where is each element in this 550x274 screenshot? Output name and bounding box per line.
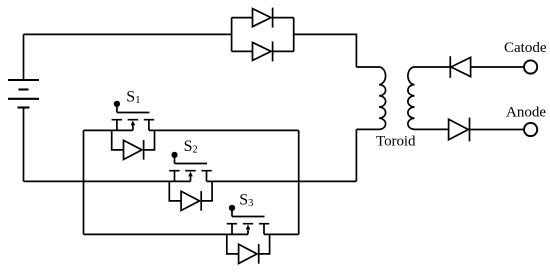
diode D2 (lower of parallel pair): [253, 42, 272, 60]
switch S2 source stem: [174, 171, 176, 182]
switch S2 diode triangle: [181, 191, 199, 210]
wire secondary bottom lead: [415, 128, 449, 130]
switch S1 drain stem: [148, 120, 150, 131]
diode D4 (points right): [449, 119, 469, 139]
terminal circle cathode: [524, 60, 537, 73]
switch S1 antiparallel diode loop wire: [112, 130, 155, 150]
switch S2 gate dot: [172, 153, 177, 158]
switch S2 diode cathode bar: [200, 191, 202, 211]
switch S1 source stem: [116, 120, 118, 131]
svg-text:S3: S3: [239, 192, 253, 210]
diode D3 cathode bar: [449, 56, 451, 78]
wire bottom-branch anode side: [232, 50, 253, 52]
switch S3 gate dot: [230, 206, 235, 211]
wire box left edge: [83, 130, 85, 234]
wire from diode pair to transformer: [294, 34, 357, 67]
wire secondary top lead: [415, 66, 451, 68]
switch S1 gate dot: [115, 102, 120, 107]
wire bottom-branch cathode side: [273, 50, 294, 52]
switch S2 body arrow: [190, 176, 192, 182]
switch S3 channel plates: [227, 223, 270, 225]
switch S3 gate lead wire: [231, 208, 233, 217]
diode D3 (points left): [451, 57, 471, 76]
terminal circle anode: [524, 123, 537, 136]
wire S3 branch right: [264, 233, 299, 235]
battery: [8, 80, 39, 108]
wire S1 branch left: [84, 129, 133, 131]
switch S3 body arrow: [247, 229, 249, 235]
wire battery positive lead up: [23, 34, 25, 80]
node diode-pair left bar: [231, 18, 233, 52]
transformer secondary winding: [408, 67, 415, 129]
svg-text:S2: S2: [184, 138, 198, 156]
switch S1 gate bar: [117, 112, 149, 114]
switch S2 antiparallel diode loop wire: [169, 181, 212, 201]
wire S1 branch right: [149, 129, 299, 131]
svg-text:Toroid: Toroid: [376, 134, 416, 150]
wire S2 branch left: [24, 180, 191, 182]
wire S2 branch right: [207, 180, 357, 182]
switch S2 drain stem: [206, 171, 208, 182]
switch S1 body arrow: [132, 125, 134, 131]
switch S1 channel plates: [112, 119, 155, 121]
switch S3 antiparallel diode loop wire: [227, 234, 270, 254]
switch S2 gate lead wire: [174, 155, 176, 164]
wire battery negative lead down: [23, 108, 25, 182]
svg-text:S1: S1: [126, 88, 140, 106]
wire to anode terminal: [470, 129, 524, 131]
switch S1 diode triangle: [124, 140, 142, 159]
switch S2 gate bar: [175, 163, 208, 165]
switch S2 channel plates: [169, 170, 212, 172]
svg-text:Anode: Anode: [506, 105, 546, 121]
wire top-branch anode side: [232, 17, 253, 19]
node diode-pair right bar: [293, 18, 295, 52]
wire top-branch cathode side: [273, 17, 294, 19]
switch S3 drain stem: [263, 224, 265, 235]
switch S1 diode cathode bar: [143, 140, 145, 160]
diode D1 (upper of parallel pair): [253, 9, 272, 27]
svg-text:Catode: Catode: [504, 40, 547, 56]
switch S3 diode cathode bar: [258, 244, 260, 264]
wire primary bottom lead: [355, 129, 357, 181]
wire S3 branch left: [84, 233, 249, 235]
switch S1 gate lead wire: [116, 104, 118, 113]
switch S3 source stem: [231, 224, 233, 235]
wire to cathode terminal: [471, 66, 524, 68]
wire top rail from battery to diode pair: [24, 33, 232, 35]
switch S3 diode triangle: [239, 244, 257, 263]
wire box right edge: [298, 130, 300, 234]
switch S3 gate bar: [232, 216, 265, 218]
transformer primary winding: [356, 67, 385, 129]
